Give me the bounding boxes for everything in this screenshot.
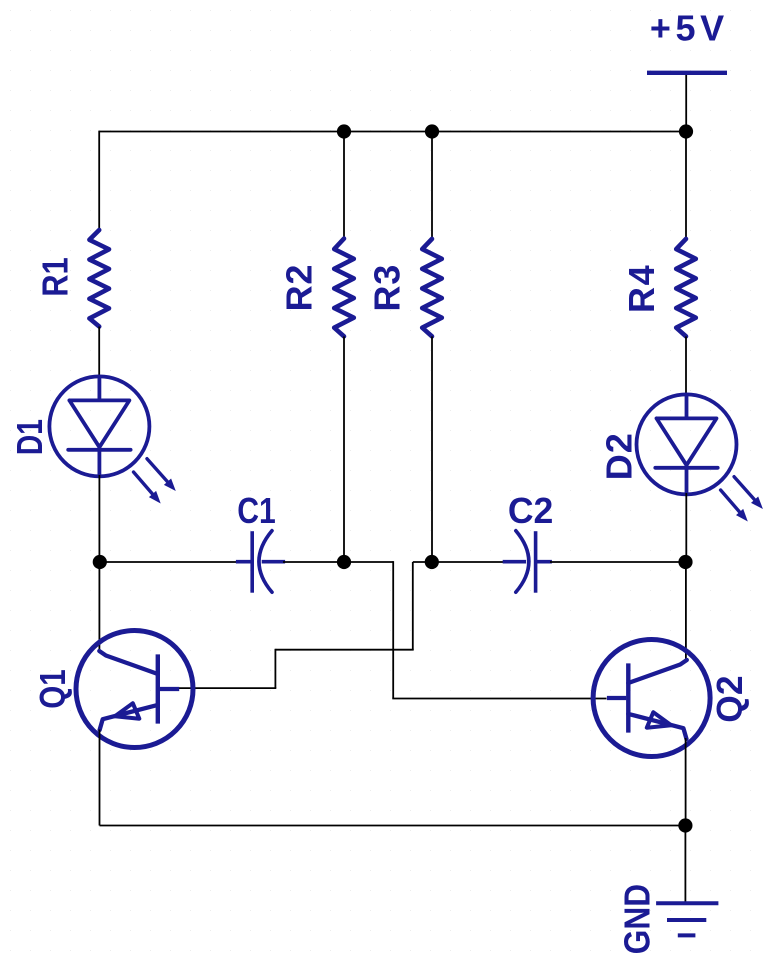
LED D1 [49,376,149,476]
svg-text:Q2: Q2 [709,676,750,723]
wire Q1 emitter down [99,730,101,826]
svg-text:D1: D1 [9,419,50,455]
svg-text:+5V: +5V [650,8,724,49]
wire C2 to node D [550,561,686,563]
wire C1 to node B [283,561,344,563]
wire R3 to node C [431,336,433,562]
capacitor C1 [250,531,254,593]
wire node C rail stub [413,561,432,563]
node junction A (D1/Q1 collector/C1) [93,555,107,569]
wire R2 to node B [343,336,345,562]
wire to Q1 base [179,687,276,689]
wire top rail to R1 [98,131,100,230]
node junction B (R2/C1/cross wire) [337,555,351,569]
capacitor C2 [534,531,538,593]
svg-text:GND: GND [616,884,657,954]
resistor R3 [422,239,442,337]
transistor Q2 [593,640,710,757]
svg-text:C2: C2 [508,490,554,531]
svg-text:C1: C1 [237,490,276,531]
wire node B to crossover [344,561,393,563]
wire node A to C1 [100,561,238,563]
wire vertical jog to Q1 base [274,649,276,688]
wire node D to Q2 collector [685,562,687,662]
svg-text:R4: R4 [621,265,662,313]
svg-text:R3: R3 [367,265,408,312]
wire node C to C2 [432,561,512,563]
svg-text:Q1: Q1 [32,669,73,709]
resistor R2 [334,239,354,337]
wire horizontal to Q2 base [392,698,606,700]
svg-text:D2: D2 [598,433,639,480]
resistor R4 [676,239,696,337]
wire R4 to D2 [685,336,687,396]
wire R1 to D1 [98,327,100,379]
node junction E (bottom rail/ground) [678,818,692,832]
wire top rail to R4 [685,132,687,239]
wire D2 to node D [685,493,687,562]
wire top rail to R2 [343,132,345,239]
wire horizontal cross to Q1 side [275,649,413,651]
node junction top R2 [337,124,351,138]
svg-text:R1: R1 [35,257,76,297]
wire Q2 emitter down [685,738,687,826]
power +5V rail bar [647,71,727,75]
wire +5V bar to top rail [685,75,687,132]
node junction C (R3/C2/cross wire) [425,555,439,569]
LED D2 [637,394,737,494]
wire bottom rail [100,825,686,827]
svg-text:R2: R2 [279,265,320,312]
ground symbol [656,901,718,905]
wire crossover vertical from node C [412,562,414,650]
wire node E to ground [684,826,686,904]
wire D1 to node A [98,475,100,562]
transistor Q1 [76,631,193,748]
node junction top R4 [679,124,693,138]
wire crossover vertical to Q2 base [392,561,394,698]
node junction D (D2/Q2 collector/C2) [678,555,692,569]
node junction top R3 [425,124,439,138]
wire top rail [99,131,686,133]
wire node A to Q1 collector [98,562,100,651]
resistor R1 [89,230,109,327]
wire top rail to R3 [431,132,433,239]
